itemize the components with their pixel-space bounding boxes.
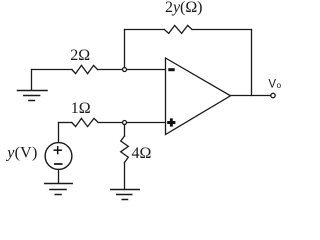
- svg-text:Vo: Vo: [268, 78, 281, 90]
- resistor R1 2ohm: [72, 65, 98, 73]
- ground G1 (top-left): [18, 70, 48, 101]
- wire R 4ohm to ground: [124, 163, 126, 190]
- wire feedback top-left horizontal: [125, 29, 165, 31]
- wire source top vertical: [58, 123, 60, 143]
- source V1 y(V): [45, 143, 72, 170]
- svg-text:2y(Ω): 2y(Ω): [165, 0, 203, 16]
- wire op-amp output: [231, 95, 271, 97]
- wire ground to R 2ohm: [32, 69, 73, 71]
- wire feedback top-right horizontal: [192, 29, 252, 31]
- op-amp U1: [166, 58, 231, 135]
- svg-text:2Ω: 2Ω: [70, 47, 90, 64]
- wire source bottom vertical: [58, 169, 60, 183]
- node B (noninverting junction): [123, 121, 127, 125]
- node A (inverting input junction): [123, 68, 127, 72]
- svg-text:y(V): y(V): [5, 144, 37, 161]
- wire node B down to R 4ohm: [124, 125, 126, 137]
- wire source to R 1ohm: [59, 122, 72, 124]
- ground G2 (below 4ohm): [111, 190, 139, 200]
- resistor R2 2y(ohm) feedback: [164, 25, 192, 33]
- op-amp minus input symbol: [168, 68, 174, 71]
- resistor R3 1ohm: [72, 118, 98, 126]
- wire feedback left vertical: [124, 30, 126, 68]
- op-amp plus input symbol: [167, 118, 175, 126]
- resistor R4 4ohm: [121, 136, 129, 163]
- ground G3 (below source): [45, 184, 72, 195]
- source plus mark: [54, 147, 61, 154]
- node Vo output terminal: [271, 93, 275, 97]
- source minus mark: [55, 163, 62, 165]
- wire R 1ohm to noninverting input: [98, 122, 165, 124]
- wire R 2ohm to inverting input: [98, 69, 166, 71]
- wire feedback right vertical: [251, 30, 253, 96]
- svg-text:4Ω: 4Ω: [132, 145, 152, 162]
- svg-text:1Ω: 1Ω: [71, 100, 91, 117]
